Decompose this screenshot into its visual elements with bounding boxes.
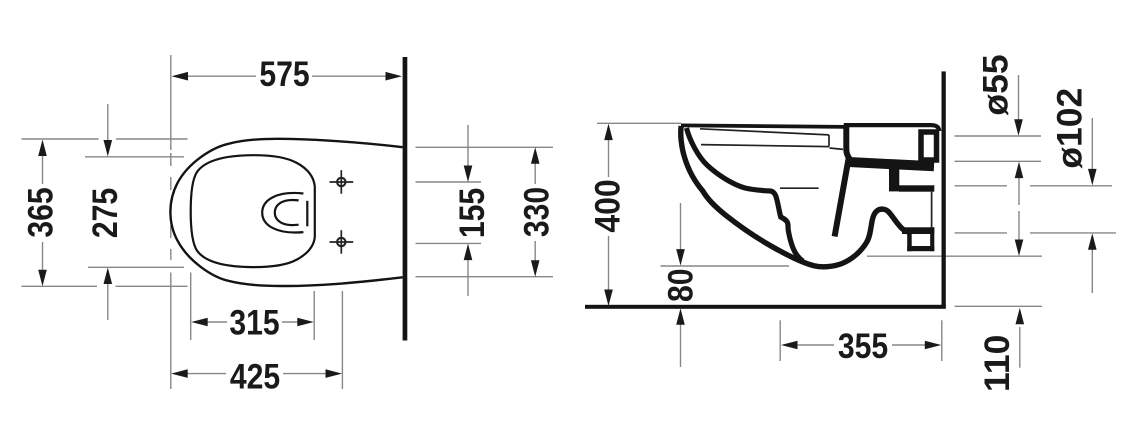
svg-text:400: 400 [588, 179, 628, 232]
svg-text:155: 155 [452, 188, 492, 238]
svg-text:ø102: ø102 [1049, 88, 1089, 169]
svg-text:315: 315 [229, 302, 279, 342]
svg-text:80: 80 [660, 268, 700, 302]
svg-text:275: 275 [84, 188, 124, 238]
svg-text:ø55: ø55 [976, 54, 1016, 115]
svg-text:365: 365 [20, 187, 60, 237]
svg-text:110: 110 [977, 335, 1017, 392]
svg-text:330: 330 [516, 187, 556, 237]
svg-text:575: 575 [259, 54, 309, 94]
svg-text:425: 425 [230, 356, 280, 396]
svg-text:355: 355 [838, 326, 888, 366]
